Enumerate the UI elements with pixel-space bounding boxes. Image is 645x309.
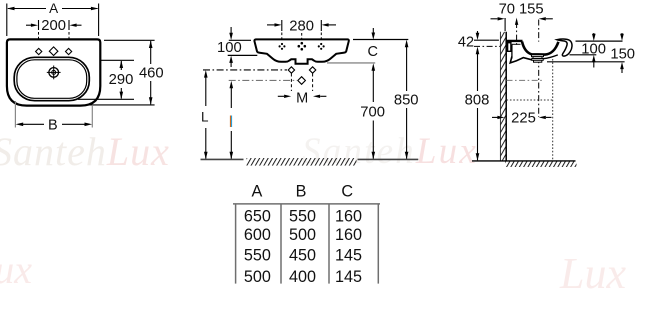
under-lip extension [570,54,597,56]
floor line right drawing [472,160,576,162]
floor line right segment [358,158,419,160]
drain diamond [298,77,306,85]
dimension L [204,70,208,159]
centre line of drain (dash-dot gray) [229,79,297,81]
label I coloured [230,116,231,128]
svg-text:550: 550 [289,207,316,225]
svg-text:700: 700 [360,105,385,121]
inner bowl oval inner [17,60,87,99]
fixing centre line (dash-dot) [474,45,500,47]
svg-text:450: 450 [289,247,316,265]
drain centre line lower (dash-dot gray) [507,79,544,81]
table grid [233,204,380,284]
svg-text:500: 500 [244,268,271,286]
fixing hole diamonds [288,67,316,73]
drain centre line (dash-dot vertical) [538,20,540,118]
svg-text:160: 160 [335,207,362,225]
svg-text:400: 400 [289,268,316,286]
dimension 850 [405,40,409,160]
svg-text:100: 100 [217,40,242,56]
svg-text:B: B [48,118,58,134]
svg-text:155: 155 [519,2,544,18]
basin side profile: deck top [506,40,522,42]
floor hatch middle [247,158,357,166]
dimension M [278,95,327,98]
svg-text:Lux: Lux [559,249,626,298]
svg-text:145: 145 [335,247,362,265]
basin outline [7,39,100,105]
drain flange [532,55,544,62]
deck underside [512,43,521,45]
dimension 280 [267,20,336,31]
front lip [557,39,572,56]
svg-text:600: 600 [244,226,271,244]
svg-text:Lux: Lux [0,247,32,292]
dimension 225 [492,116,552,119]
inner bowl oval outer [14,57,89,100]
dimension 100 (middle) [229,27,233,67]
svg-text:550: 550 [244,247,271,265]
svg-text:150: 150 [610,47,635,63]
svg-text:145: 145 [335,268,362,286]
underside line to front [544,55,558,59]
svg-text:SantehLux: SantehLux [302,131,478,172]
svg-text:290: 290 [109,72,134,88]
tap centre line (dash-dot vertical) [516,22,518,45]
svg-text:C: C [341,182,353,200]
tap hole diamonds [36,47,72,56]
bowl bottom extension (gray) [327,62,375,64]
floor line left segment [201,158,244,160]
dimension A line [7,4,99,37]
rim top extension line right [353,39,408,41]
hidden trap outline vertical (dotted) [552,59,554,161]
table values column C [335,207,362,286]
bowl shell [522,42,558,55]
rim top extension right [576,40,623,42]
svg-text:L: L [201,110,209,125]
hidden trap outline horizontal (dotted) [507,99,553,101]
svg-text:200: 200 [41,18,66,34]
dashed projection lines to tap holes [39,32,70,47]
table values column A [244,207,271,286]
svg-text:460: 460 [139,66,164,82]
svg-text:SantehLux: SantehLux [0,129,170,174]
dimension 100 (right) [592,33,596,68]
dimension I (subpixel coloured bar) [230,81,234,160]
dimension B [15,101,92,128]
svg-text:280: 280 [289,18,314,34]
dimension 150 (right) [620,33,624,73]
svg-text:A: A [251,182,262,200]
dimension 42 [474,31,499,40]
dimension 70/155 [491,17,553,31]
svg-text:850: 850 [394,93,419,109]
basin tap hole diamonds (elevation) [279,42,325,51]
back apron [511,44,513,58]
basin bottom edge extension left [228,54,258,56]
underside extension [547,61,625,63]
fixing bracket with slot [507,42,512,52]
svg-text:A: A [49,1,58,16]
dimension 460 [89,40,155,105]
svg-text:M: M [296,90,308,106]
dashed drop lines for M [291,74,312,92]
svg-text:70: 70 [499,2,515,18]
floor hatch right drawing [505,161,577,167]
svg-text:650: 650 [244,207,271,225]
wall section [501,32,506,161]
dashed projection lines to basin holes [282,33,322,44]
drain symbol [47,66,61,80]
basin profile (elevation) [254,39,348,63]
dimension 290 [78,60,134,99]
table values column B [289,207,316,286]
svg-text:225: 225 [511,111,536,127]
svg-text:B: B [296,182,307,200]
rim top extension line left [229,39,251,41]
svg-text:160: 160 [335,226,362,244]
svg-text:100: 100 [581,42,606,58]
dimension C with 700 shared line [372,28,376,159]
centre line of fixing holes (dash-dot) [203,69,287,71]
svg-text:500: 500 [289,226,316,244]
dimension 808 (shares line with 42 lower arrow) [476,47,480,161]
svg-text:C: C [367,44,377,60]
svg-text:42: 42 [458,34,474,50]
svg-text:808: 808 [465,93,490,109]
dimension 200 [26,20,82,30]
